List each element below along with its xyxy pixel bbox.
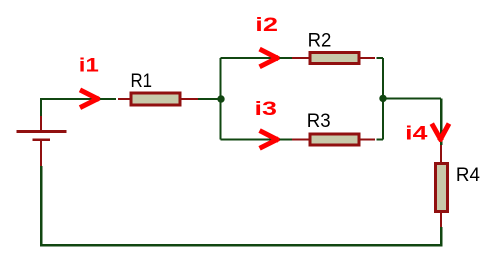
svg-text:i1: i1 [79,56,99,77]
svg-text:R3: R3 [307,111,331,132]
svg-text:R4: R4 [456,165,480,186]
svg-text:i2: i2 [255,15,278,36]
svg-text:i3: i3 [255,99,278,120]
svg-text:R2: R2 [308,31,332,52]
svg-text:R1: R1 [131,71,153,92]
svg-text:i4: i4 [405,124,428,145]
